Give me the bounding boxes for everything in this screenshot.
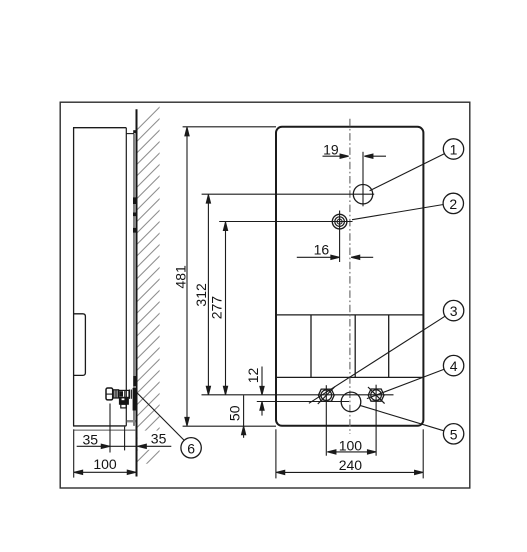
dimension 240 bbox=[276, 429, 423, 478]
dimension 277 bbox=[223, 222, 227, 395]
svg-text:35: 35 bbox=[151, 430, 167, 446]
leader 1 bbox=[370, 154, 445, 191]
svg-text:19: 19 bbox=[323, 141, 339, 157]
side view unit outline bbox=[73, 128, 136, 430]
svg-text:481: 481 bbox=[173, 265, 189, 289]
callout 4 bbox=[443, 355, 463, 375]
wall hatching bbox=[134, 71, 162, 477]
wall hooks bbox=[133, 130, 136, 386]
svg-text:240: 240 bbox=[339, 457, 363, 473]
dimension 19 bbox=[323, 154, 387, 158]
svg-text:3: 3 bbox=[450, 303, 458, 319]
dimension 481 bbox=[183, 127, 276, 426]
leader 4 bbox=[367, 369, 444, 398]
svg-text:4: 4 bbox=[450, 358, 458, 374]
border frame bbox=[60, 102, 470, 488]
callout 2 bbox=[443, 193, 463, 213]
svg-text:2: 2 bbox=[449, 196, 457, 212]
vertical centerline bbox=[349, 119, 351, 434]
leader 5 bbox=[360, 405, 444, 430]
svg-text:12: 12 bbox=[245, 368, 261, 384]
callout 5 bbox=[443, 424, 463, 444]
hole 1 (cable entry) bbox=[353, 185, 372, 204]
dimension 50 bbox=[242, 395, 246, 438]
fitting 3 (left water connection) bbox=[318, 385, 335, 456]
svg-text:100: 100 bbox=[339, 438, 363, 454]
callout 1 bbox=[443, 139, 463, 159]
dimensions 35 / 35 bbox=[74, 404, 172, 478]
dimension 16 bbox=[297, 255, 373, 259]
callout 3 bbox=[443, 300, 463, 320]
svg-text:277: 277 bbox=[209, 296, 225, 320]
reference line A bbox=[202, 394, 394, 396]
svg-text:1: 1 bbox=[450, 142, 458, 158]
side handle recess bbox=[74, 314, 86, 376]
front view outline bbox=[276, 127, 423, 426]
svg-text:5: 5 bbox=[450, 426, 458, 442]
leader 6 bbox=[137, 393, 184, 441]
svg-text:35: 35 bbox=[83, 432, 99, 448]
leader 2 bbox=[352, 205, 443, 220]
svg-text:50: 50 bbox=[227, 405, 243, 421]
mounting plate foot bbox=[127, 420, 136, 422]
wall face line bbox=[136, 109, 138, 476]
reference line B bbox=[257, 401, 349, 403]
svg-text:100: 100 bbox=[93, 456, 117, 472]
dimension 312 bbox=[206, 195, 210, 395]
front view lower strip bbox=[277, 315, 424, 378]
opening 5 (middle circle) bbox=[341, 392, 361, 412]
side valve assembly bbox=[106, 388, 136, 411]
svg-text:6: 6 bbox=[187, 440, 195, 456]
hatch text clearance bbox=[138, 431, 172, 450]
dimension 12 bbox=[260, 367, 264, 416]
dimension 100 (front) bbox=[327, 450, 376, 454]
dimension 100 (side) bbox=[74, 470, 136, 474]
hole 2 (screw) bbox=[219, 211, 352, 263]
leader 3 bbox=[309, 316, 445, 403]
callout 6 bbox=[181, 438, 201, 458]
svg-text:16: 16 bbox=[314, 242, 330, 258]
svg-text:312: 312 bbox=[193, 283, 209, 307]
fitting 4 (right water connection) bbox=[368, 385, 385, 456]
